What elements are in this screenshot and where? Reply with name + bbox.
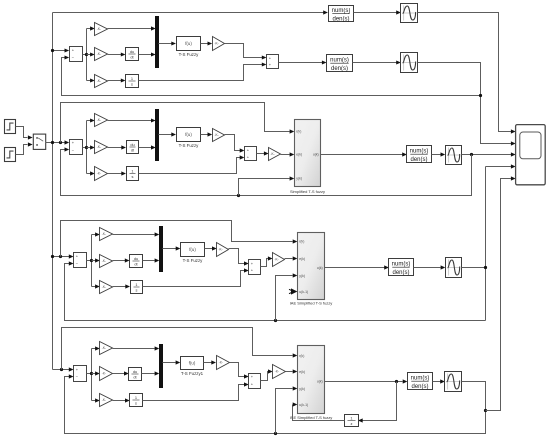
wire to Gain K1a (87, 28, 91, 30)
wire Gain K2b to Derivative2 (108, 147, 122, 149)
transfer function TransferFcn (reference model) (329, 6, 354, 23)
wire T-S Fuzzy1 to gain (204, 362, 212, 364)
wire to Gain K2a (87, 120, 91, 122)
svg-text:1: 1 (131, 76, 133, 81)
step source Step (5, 120, 16, 134)
svg-text:u(k): u(k) (313, 152, 319, 156)
integrator block Integrator2 (127, 167, 139, 181)
wire gain K1d to Add1 input1 (225, 44, 263, 58)
integrator block Integrator4 (130, 394, 143, 407)
wire Derivative4 to Mux4 bar (142, 373, 155, 375)
wire r(k) branch to Simplified subsystem (61, 103, 290, 143)
svg-text:-K-: -K- (97, 172, 101, 176)
wire reference vertical trunk (52, 13, 54, 370)
mux bar Mux3 (159, 226, 163, 272)
sine display block row4 (446, 258, 462, 278)
sine display block row1 (401, 4, 418, 23)
sum block Sum2 (70, 140, 83, 155)
wire y(k) to ISE subsystem (276, 389, 293, 434)
wire Integrator4 to Add4 input2 (143, 385, 245, 401)
svg-text:f(u): f(u) (189, 247, 196, 252)
wire Sum1 output branch (83, 29, 87, 81)
svg-text:-K-: -K- (214, 42, 218, 46)
wire Gain K2c to Integrator2 (108, 173, 122, 175)
wire Kc4 to ISE subsystem e(k) (286, 371, 293, 373)
gain K3b (100, 255, 113, 268)
gain K1c (95, 75, 108, 88)
svg-text:num(s): num(s) (330, 58, 349, 64)
wire Mux2 to T-S Fuzzy2 (159, 134, 172, 136)
wire TransferFcn to sine scope1 (354, 12, 397, 14)
junction u(k) to unit delay branch (395, 380, 398, 383)
svg-text:-K-: -K- (97, 79, 101, 83)
wire Gain K1c to Integrator1 (108, 80, 122, 82)
svg-text:s: s (136, 288, 138, 293)
junction y(k)2 branch (237, 194, 240, 197)
junction trunk branch row2 up (59, 141, 62, 144)
wire to Gain K4c (92, 400, 96, 402)
svg-text:f(u): f(u) (189, 361, 196, 366)
svg-text:y(k): y(k) (299, 387, 305, 391)
wire Integrator1 to Add1 input2 (139, 65, 263, 81)
svg-text:f(u): f(u) (185, 132, 192, 137)
svg-text:-K-: -K- (97, 118, 101, 122)
junction Sum3 output (90, 259, 93, 262)
svg-text:-K-: -K- (102, 346, 106, 350)
wire reference to plant TF row 1 (53, 12, 324, 14)
wire Step to switch input 1 (16, 127, 28, 138)
junction trunk row1 (51, 49, 54, 52)
step source Step1 (5, 148, 16, 162)
wire Step1 to switch input 2 (16, 145, 28, 155)
svg-text:1: 1 (135, 395, 137, 400)
svg-text:den(s): den(s) (332, 16, 349, 22)
wire TransferFcn2 to sine scope3 (432, 154, 441, 156)
wire Mux4 to T-S Fuzzy1 (163, 362, 176, 364)
gain K4a (100, 342, 113, 355)
wire Derivative1 to Mux1 bar (139, 54, 152, 56)
wire sine5 out right and down (65, 377, 486, 434)
svg-text:ISE Simplified T-S fuzzy: ISE Simplified T-S fuzzy (290, 415, 333, 420)
svg-text:-K-: -K- (275, 370, 279, 374)
svg-text:den(s): den(s) (411, 384, 428, 390)
wire branch to Scope input5 (486, 179, 512, 411)
sum block Add2 (245, 147, 257, 161)
wire sine4 to Scope input4 (462, 167, 512, 321)
wire Add4 to gain Kc4 (261, 372, 269, 381)
wire Gain K4a to Mux4 bar (113, 348, 155, 350)
svg-text:s: s (131, 82, 133, 87)
svg-text:-K-: -K- (102, 398, 106, 402)
sum block Sum3 (74, 253, 87, 268)
svg-text:den(s): den(s) (392, 270, 409, 276)
svg-text:u(k-1): u(k-1) (299, 403, 308, 407)
wire Add1 to TransferFcn1 (279, 62, 323, 64)
wire Sum4 output branch (87, 349, 92, 401)
svg-text:T-S Fuzzy: T-S Fuzzy (183, 258, 204, 263)
svg-text:r(k): r(k) (296, 130, 301, 134)
svg-text:-K-: -K- (219, 361, 223, 365)
gain K3c (100, 281, 113, 294)
wire plant2 feedback (61, 150, 472, 196)
sum block Add4 (249, 374, 261, 389)
wire to Gain K3b (92, 260, 96, 262)
integrator block Integrator3 (131, 281, 143, 294)
wire Gain K3c to Integrator3 (113, 286, 126, 288)
svg-text:du: du (133, 369, 137, 374)
wire sine1 to Scope input1 (418, 13, 512, 132)
svg-text:T-S Fuzzy: T-S Fuzzy (179, 52, 200, 57)
svg-text:-K-: -K- (218, 248, 222, 252)
svg-text:-K-: -K- (102, 259, 106, 263)
transfer function TransferFcn3 (plant 3) (389, 259, 414, 276)
wire plant1 feedback to Sum1 (62, 58, 481, 96)
wire to Gain K1c (87, 80, 91, 82)
unconnected port arrow u(k-1) IAE (291, 288, 297, 294)
gain K1b (95, 48, 108, 61)
scope block Scope (5 inputs) (516, 125, 546, 185)
wire T-S Fuzzy2 to gain (201, 134, 208, 136)
svg-text:T-S Fuzzy: T-S Fuzzy (179, 143, 200, 148)
svg-text:Simplified T-S fuzzy: Simplified T-S fuzzy (290, 189, 325, 194)
wire Integrator3 to Add3 input2 (143, 271, 245, 287)
svg-text:f(u): f(u) (185, 41, 192, 46)
svg-text:s: s (135, 401, 137, 406)
junction y(k)3 branch (274, 319, 277, 322)
svg-text:u(k): u(k) (317, 266, 323, 270)
svg-text:e(k): e(k) (296, 152, 302, 156)
junction Sum1 output (85, 53, 88, 56)
wire Kc2 to Simplified subsystem e(k) (281, 154, 290, 156)
junction r(k)4 branch (60, 368, 63, 371)
svg-text:-K-: -K- (102, 285, 106, 289)
gain K1a (95, 23, 108, 36)
wire y(k) to Simplified subsystem (239, 179, 290, 196)
gain Kc2 (269, 148, 281, 161)
svg-text:num(s): num(s) (410, 149, 429, 155)
wire Derivative3 to Mux3 bar (143, 260, 155, 262)
fuzzy logic block T-S Fuzzy (177, 37, 201, 58)
wire gain K4d to Add4 input1 (230, 363, 245, 377)
svg-text:r(k): r(k) (299, 354, 304, 358)
wire Add3 to gain Kc3 (261, 259, 269, 267)
gain K3a (100, 228, 113, 241)
derivative block Derivative4 (129, 368, 142, 381)
sine display block row3 (446, 146, 462, 165)
junction Sum4 output (90, 372, 93, 375)
wire Integrator2 to Add2 input2 (139, 158, 241, 174)
wire Gain K1a to Mux1 bar (108, 28, 152, 30)
sum block Add1 (267, 55, 279, 69)
junction feedback group1 (479, 94, 482, 97)
sum block Sum1 (70, 47, 83, 62)
wire ISE subsystem to TransferFcn4 (325, 381, 403, 383)
manual switch block (33, 134, 45, 149)
wire u(k) branch to unit delay (363, 382, 397, 421)
gain K4d after fuzzy (217, 356, 230, 370)
gain Kc3 (273, 253, 285, 267)
svg-text:T-S Fuzzy1: T-S Fuzzy1 (181, 371, 204, 376)
svg-text:du: du (130, 49, 134, 54)
wire sine2 to Scope input2 (418, 63, 512, 144)
junction y(k)4 branch (274, 432, 277, 435)
svg-text:e(k): e(k) (299, 257, 305, 261)
mux bar Mux2 (155, 109, 159, 161)
junction trunk row3 (51, 255, 54, 258)
gain K4c (100, 394, 113, 407)
gain K2c (95, 167, 108, 181)
svg-text:1: 1 (350, 415, 352, 420)
svg-text:u(k-1): u(k-1) (299, 290, 308, 294)
svg-text:1: 1 (135, 282, 137, 287)
wire TransferFcn1 to sine scope2 (353, 62, 397, 64)
transfer function TransferFcn4 (plant 4) (408, 373, 433, 390)
wire Mux3 to T-S Fuzzy3 (163, 248, 177, 250)
wire Gain K2a to Mux2 bar (108, 120, 152, 122)
svg-text:-K-: -K- (270, 152, 274, 156)
gain K2b (95, 141, 108, 154)
svg-text:z: z (351, 421, 353, 426)
wire to Gain K4a (92, 348, 96, 350)
svg-text:-K-: -K- (102, 372, 106, 376)
derivative block Derivative1 (126, 48, 139, 61)
derivative block Derivative3 (130, 255, 143, 268)
wire to Gain K3a (92, 234, 96, 236)
sum block Add3 (249, 260, 261, 275)
wire unit delay to u(k-1) port (293, 405, 345, 421)
mux bar Mux4 (159, 344, 163, 388)
wire T-S Fuzzy to gain (201, 43, 208, 45)
transfer function TransferFcn1 (plant 1) (327, 55, 353, 72)
wire Gain K4c to Integrator4 (113, 400, 126, 402)
wire Kc3 to IAE subsystem e(k) (285, 258, 293, 260)
wire reference branch to Sum3 (53, 256, 70, 258)
junction r(k)3 branch (59, 255, 62, 258)
wire sine3 to Scope input3 (462, 154, 512, 156)
svg-text:den(s): den(s) (331, 66, 348, 72)
wire reference trunk corner to Sum4 (53, 369, 70, 371)
sine display block row5 (445, 372, 462, 392)
junction plant3 output (484, 266, 487, 269)
wire Gain K4b to Derivative4 (113, 373, 125, 375)
wire Derivative2 to Mux2 bar (139, 147, 152, 149)
svg-text:-K-: -K- (102, 232, 106, 236)
gain K1d after fuzzy (213, 37, 225, 51)
junction plant2 output (470, 153, 473, 156)
subsystem Simplified T-S fuzzy (290, 120, 325, 194)
sum block Sum4 (74, 366, 87, 382)
mux bar Mux1 (155, 16, 159, 68)
gain K2d after fuzzy (213, 129, 225, 142)
wire r(k) branch to IAE subsystem (61, 221, 293, 257)
wire Gain K3b to Derivative3 (113, 260, 126, 262)
fuzzy logic block T-S Fuzzy2 (177, 128, 201, 149)
fuzzy logic block T-S Fuzzy1 (181, 357, 204, 377)
wire gain K2d to Add2 input1 (225, 135, 241, 151)
wire reference branch to Sum1 (53, 50, 65, 52)
wire r(k) branch to ISE subsystem (62, 328, 293, 370)
junction reference/trunk row2 (51, 141, 54, 144)
svg-text:1: 1 (131, 168, 133, 173)
wire IAE subsystem to TransferFcn3 (325, 267, 385, 269)
svg-text:den(s): den(s) (410, 157, 427, 163)
wire to Gain K2b (87, 147, 91, 149)
junction scope5 branch (484, 409, 487, 412)
svg-text:u(k): u(k) (317, 380, 323, 384)
integrator block Integrator1 (126, 75, 139, 88)
wire Simplified subsystem to TransferFcn2 (321, 154, 403, 156)
wire gain K3d to Add3 input1 (229, 249, 245, 264)
svg-text:num(s): num(s) (332, 8, 351, 14)
gain Kc4 (273, 365, 286, 379)
wire T-S Fuzzy3 to gain (205, 248, 213, 250)
gain K4b (100, 367, 113, 381)
wire y(k) to IAE subsystem (276, 276, 293, 321)
unit delay block 1/z (mirrored) (345, 415, 359, 427)
sine display block row2 (401, 53, 418, 73)
svg-text:du: du (134, 256, 138, 261)
wire Sum2 output branch (83, 121, 87, 174)
svg-text:y(k): y(k) (296, 177, 302, 181)
gain K3d after fuzzy (217, 243, 229, 257)
wire Gain K1b to Derivative1 (108, 54, 122, 56)
wire TransferFcn3 to sine scope4 (414, 267, 441, 269)
junction Sum2 output (85, 146, 88, 149)
svg-text:-K-: -K- (214, 133, 218, 137)
svg-text:e(k): e(k) (299, 370, 305, 374)
wire plant3 feedback (65, 264, 486, 321)
svg-text:r(k): r(k) (299, 240, 304, 244)
wire to Gain K1b (87, 54, 91, 56)
svg-text:IAE Simplified T-S fuzzy: IAE Simplified T-S fuzzy (290, 300, 333, 305)
svg-text:num(s): num(s) (392, 262, 411, 268)
gain K2a (95, 114, 108, 127)
derivative block Derivative2 (127, 141, 139, 154)
subsystem IAE Simplified T-S fuzzy (290, 233, 333, 306)
svg-text:-K-: -K- (97, 145, 101, 149)
svg-text:y(k): y(k) (299, 274, 305, 278)
wire to Gain K4b (92, 373, 96, 375)
transfer function TransferFcn2 (plant 2) (407, 146, 432, 163)
wire to Gain K2c (87, 173, 91, 175)
wire to Gain K3c (92, 286, 96, 288)
svg-text:-K-: -K- (274, 258, 278, 262)
wire Add2 to gain Kc2 (257, 153, 265, 155)
subsystem ISE Simplified T-S fuzzy (290, 346, 333, 420)
wire Mux1 to T-S Fuzzy (159, 43, 172, 45)
wire Gain K3a to Mux3 bar (113, 234, 155, 236)
svg-text:du: du (130, 142, 134, 147)
fuzzy logic block T-S Fuzzy3 (181, 243, 205, 264)
wire switch output to Sum2 (46, 142, 65, 144)
svg-text:-K-: -K- (97, 27, 101, 31)
svg-text:s: s (132, 174, 134, 179)
svg-text:-K-: -K- (97, 52, 101, 56)
wire TransferFcn4 to sine scope5 (433, 381, 441, 383)
svg-text:num(s): num(s) (411, 376, 430, 382)
wire Sum3 output branch (87, 235, 92, 287)
